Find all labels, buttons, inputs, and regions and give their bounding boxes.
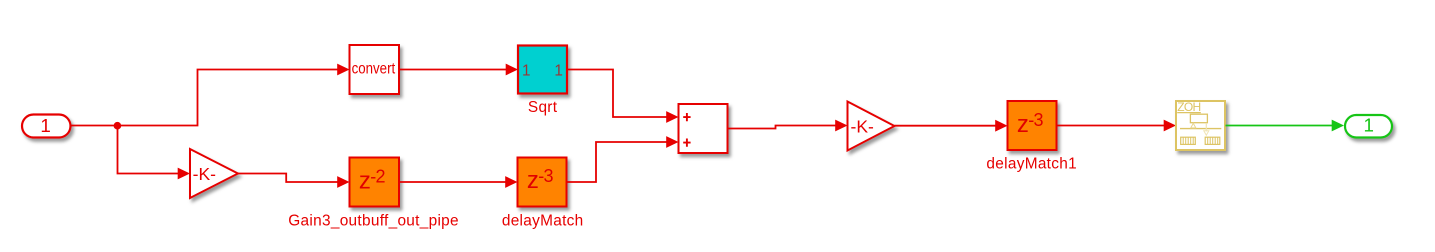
wire junction up to convert <box>118 64 350 126</box>
svg-text:convert: convert <box>352 60 396 77</box>
svg-text:ZOH: ZOH <box>1177 100 1200 114</box>
wire Gain2 to delayMatch1 <box>895 120 1008 132</box>
svg-text:delayMatch1: delayMatch1 <box>986 156 1077 173</box>
inport In1 <box>22 115 71 138</box>
svg-text:-K-: -K- <box>193 164 217 184</box>
wire In1 to junction <box>71 125 118 127</box>
sum block Add <box>679 104 728 153</box>
svg-text:Sqrt: Sqrt <box>528 99 558 116</box>
ZOH rate transition block <box>1176 100 1225 150</box>
svg-text:-3: -3 <box>538 166 553 186</box>
svg-text:1: 1 <box>40 115 50 136</box>
green wire ZOH to Out1 <box>1226 120 1345 132</box>
Sqrt block U1 <box>518 46 567 94</box>
wire delayMatch to Sum input 2 <box>567 136 679 182</box>
wire z-2 to delayMatch <box>399 176 518 188</box>
data type conversion block convert <box>350 45 400 94</box>
svg-text:1: 1 <box>554 63 563 80</box>
gain Gain3 (-K-) <box>190 149 238 198</box>
svg-text:z: z <box>1017 111 1029 138</box>
wire Sqrt to Sum input 1 <box>567 70 679 123</box>
wire junction down to Gain3 <box>118 126 191 180</box>
gain Gain2 (-K-) <box>848 102 895 151</box>
svg-text:-2: -2 <box>370 166 385 186</box>
svg-text:delayMatch: delayMatch <box>502 212 584 229</box>
svg-text:1: 1 <box>1363 115 1373 136</box>
svg-text:1: 1 <box>522 63 531 80</box>
svg-text:z: z <box>527 167 539 194</box>
delay block delayMatch (z^-3) <box>518 158 567 207</box>
svg-text:-3: -3 <box>1028 110 1043 130</box>
wire Sum to Gain2 <box>728 120 848 132</box>
outport Out1 <box>1345 115 1392 138</box>
svg-text:z: z <box>359 168 371 195</box>
wire convert to Sqrt <box>399 64 518 76</box>
delay block delayMatch1 (z^-3) <box>1008 101 1057 150</box>
delay block Gain3_outbuff_out_pipe (z^-2) <box>350 158 400 207</box>
wire delayMatch1 to ZOH <box>1057 120 1177 132</box>
junction dot <box>114 122 122 130</box>
wire Gain3 to z-2 block <box>238 174 350 188</box>
svg-text:Gain3_outbuff_out_pipe: Gain3_outbuff_out_pipe <box>288 212 459 229</box>
svg-text:-K-: -K- <box>851 117 875 137</box>
